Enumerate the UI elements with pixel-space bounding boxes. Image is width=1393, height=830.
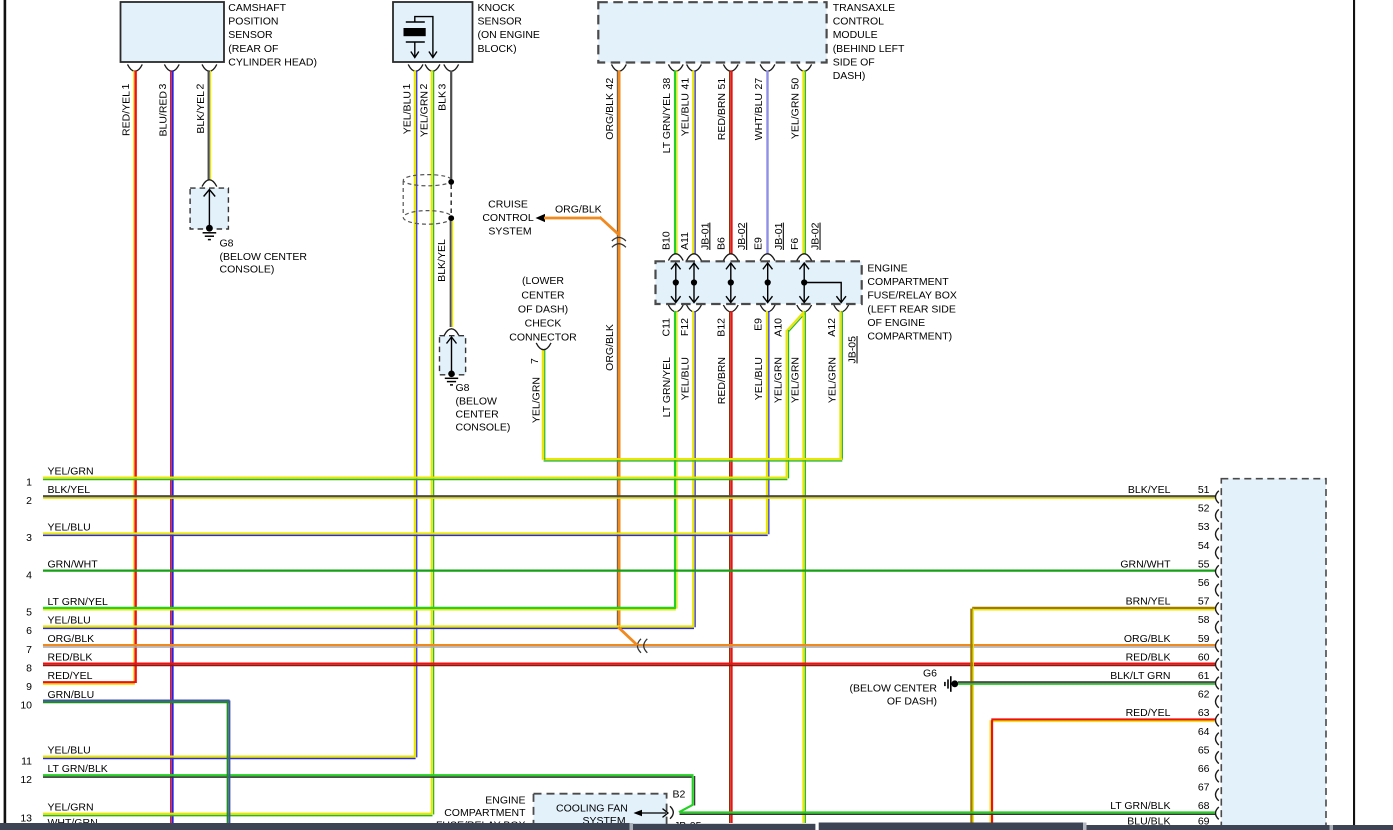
svg-text:JB-02: JB-02 [736,222,748,250]
wire GRN/BLU row10 vertical down [227,701,229,824]
fuse box bottom exit A12 [826,305,859,363]
wire BRN/YEL pin57 [971,608,1215,826]
svg-text:61: 61 [1198,670,1210,682]
svg-text:3: 3 [157,84,169,90]
fuse box top entry E9 [752,222,785,260]
connector B2 [670,789,686,819]
svg-text:57: 57 [1198,596,1210,608]
connector pin 58 [1198,614,1219,633]
svg-text:10: 10 [20,700,32,712]
svg-text:62: 62 [1198,689,1210,701]
row 2 wire BLK/YEL [26,484,1215,507]
svg-text:CRUISE: CRUISE [488,199,528,211]
svg-text:41: 41 [679,78,691,90]
svg-text:6: 6 [26,625,32,637]
fuse box internal fuse arrow 4 [763,263,773,303]
wire YEL/BLU knock pin1 vertical [401,71,416,758]
svg-text:POSITION: POSITION [228,16,278,28]
check connector pin 7 [529,343,551,423]
svg-text:BLK/LT GRN: BLK/LT GRN [1110,670,1170,682]
row 5 wire LT GRN/YEL [26,596,676,619]
svg-text:BLU/RED: BLU/RED [158,91,170,137]
connector pin 67 [1198,782,1219,801]
svg-text:B2: B2 [673,789,686,801]
TCM pin 27 connector [753,64,775,89]
svg-text:CONTROL: CONTROL [833,16,884,28]
svg-text:B10: B10 [661,231,673,250]
svg-text:CONSOLE): CONSOLE) [220,264,275,276]
svg-text:ORG/BLK: ORG/BLK [604,93,616,140]
connector pin 63 [1126,707,1219,726]
row 4 wire GRN/WHT [26,559,1215,582]
wire YEL/GRN knock pin2 vertical [418,71,433,815]
svg-text:RED/BLK: RED/BLK [1126,651,1171,663]
TCM pin 38 connector [661,64,683,89]
svg-text:G8: G8 [456,382,470,394]
camshaft pin 1 connector [120,64,142,89]
svg-text:54: 54 [1198,540,1210,552]
svg-text:ORG/BLK: ORG/BLK [555,204,602,216]
svg-text:COMPARTMENT): COMPARTMENT) [867,331,952,343]
row 7 wire ORG/BLK [26,633,1215,656]
svg-text:BLK: BLK [437,91,449,111]
svg-text:CYLINDER HEAD): CYLINDER HEAD) [228,56,317,68]
svg-text:51: 51 [1198,484,1210,496]
fuse box internal branch to A12 [804,283,846,303]
row 8 wire RED/BLK [26,652,1215,675]
svg-text:64: 64 [1198,726,1210,738]
svg-text:JB-02: JB-02 [810,222,822,250]
svg-text:A12: A12 [826,318,838,337]
fuse box top entry B10 [661,231,684,260]
fuse box bottom exit F12 [679,305,702,336]
connector pin 51 [1128,484,1219,503]
svg-text:WHT/BLU: WHT/BLU [753,93,765,140]
svg-text:(BELOW CENTER: (BELOW CENTER [849,683,937,695]
svg-text:38: 38 [661,78,673,90]
svg-text:RED/BRN: RED/BRN [716,357,728,404]
diagram left border [4,0,7,823]
svg-text:65: 65 [1198,744,1210,756]
svg-text:BLK/YEL: BLK/YEL [436,239,448,282]
svg-text:YEL/BLU: YEL/BLU [753,357,765,400]
ground G6 below center of dash [945,676,958,692]
wire ORG/BLK TCM pin42 vertical [604,71,619,629]
TCM pin 50 connector [790,64,812,89]
svg-text:COMPARTMENT: COMPARTMENT [867,276,949,288]
svg-text:(LOWER: (LOWER [522,275,564,287]
svg-text:SYSTEM: SYSTEM [488,226,531,238]
svg-text:12: 12 [20,774,32,786]
transaxle control module box [598,2,826,62]
shielded cable symbol [403,175,452,225]
engine compartment fuse/relay box [656,261,862,304]
svg-text:4: 4 [26,569,32,581]
svg-text:(REAR OF: (REAR OF [228,43,278,55]
svg-text:CONSOLE): CONSOLE) [456,422,511,434]
ground G8 right label [456,382,511,434]
svg-text:E9: E9 [753,318,765,331]
wire YEL/GRN TCM pin50 vertical [790,71,806,255]
svg-text:YEL/GRN: YEL/GRN [827,357,839,403]
svg-text:RED/BRN: RED/BRN [716,93,728,140]
svg-text:G6: G6 [923,668,937,680]
svg-text:OF DASH): OF DASH) [518,303,568,315]
wire YEL/GRN fuse A10 down [790,311,806,823]
svg-text:1: 1 [120,84,132,90]
svg-text:52: 52 [1198,503,1210,515]
svg-text:BLK/YEL: BLK/YEL [1128,484,1171,496]
connector pin 65 [1198,744,1219,763]
row 9 wire RED/YEL [26,670,135,693]
svg-text:A10: A10 [773,318,785,337]
svg-text:ORG/BLK: ORG/BLK [1124,633,1171,645]
ground G6 label [849,668,937,708]
wire BLK knock pin3 vertical [437,71,452,182]
engine compartment fuse/relay box label (bottom) [436,794,526,830]
bottom window bar [0,823,1393,830]
wire BLK/YEL shield drain to ground [436,221,453,327]
fuse box bottom exit E9 [753,305,776,331]
svg-text:COOLING FAN: COOLING FAN [556,803,628,815]
svg-text:ENGINE: ENGINE [867,263,907,275]
svg-text:42: 42 [604,78,616,90]
camshaft position sensor label [228,2,317,68]
svg-text:LT GRN/BLK: LT GRN/BLK [48,763,108,775]
svg-text:GRN/WHT: GRN/WHT [48,559,99,571]
camshaft position sensor box [121,2,225,62]
transaxle control module label [833,2,905,82]
svg-text:27: 27 [753,78,765,90]
svg-text:3: 3 [437,84,449,90]
connector pin 66 [1198,763,1219,782]
svg-text:KNOCK: KNOCK [478,2,515,14]
ground G8 below center console (left) [190,180,228,240]
svg-text:RED/BLK: RED/BLK [48,652,93,664]
svg-text:YEL/BLU: YEL/BLU [48,614,91,626]
svg-text:CONNECTOR: CONNECTOR [509,331,577,343]
connector pin 53 [1198,521,1219,540]
svg-text:BRN/YEL: BRN/YEL [1126,596,1171,608]
svg-text:CAMSHAFT: CAMSHAFT [228,2,286,14]
wire YEL/GRN fuse A12 to check connector [543,311,843,461]
svg-text:55: 55 [1198,558,1210,570]
svg-text:SENSOR: SENSOR [228,29,273,41]
wire WHT/BLU TCM pin27 vertical [753,71,768,255]
svg-text:YEL/GRN: YEL/GRN [530,377,542,423]
svg-text:CONTROL: CONTROL [482,212,533,224]
connector pin 61 [1110,670,1219,689]
camshaft pin 2 connector [195,64,217,89]
svg-text:YEL/GRN: YEL/GRN [48,466,94,478]
svg-text:(ON ENGINE: (ON ENGINE [478,29,540,41]
svg-text:SENSOR: SENSOR [478,16,523,28]
svg-text:GRN/BLU: GRN/BLU [48,689,95,701]
svg-text:CHECK: CHECK [525,317,562,329]
svg-text:SIDE OF: SIDE OF [833,56,875,68]
svg-text:63: 63 [1198,707,1210,719]
connector pin 54 [1198,540,1219,559]
fuse box bottom exit A10 [773,305,812,337]
svg-text:GRN/WHT: GRN/WHT [1120,558,1171,570]
wire RED/YEL pin63 [990,719,1215,826]
svg-text:JB-05: JB-05 [847,336,859,364]
engine compartment fuse/relay box label [867,263,956,343]
svg-text:3: 3 [26,532,32,544]
svg-text:YEL/GRN: YEL/GRN [418,91,430,137]
check connector label [509,275,577,343]
diagram right border [1353,0,1355,826]
wire LT GRN/YEL TCM pin38 vertical [661,71,677,255]
connector pin 52 [1198,503,1219,522]
connector pin 60 [1126,651,1219,670]
wire ORG/BLK diagonal into row7 [618,627,637,645]
knock sensor internal piezo symbol [404,17,437,58]
svg-text:1: 1 [26,476,32,488]
svg-text:2: 2 [26,495,32,507]
cooling fan arrow [634,809,669,818]
knock pin 2 connector [418,64,440,89]
svg-text:58: 58 [1198,614,1210,626]
svg-text:67: 67 [1198,782,1210,794]
svg-text:(BEHIND LEFT: (BEHIND LEFT [833,43,905,55]
svg-text:BLK/YEL: BLK/YEL [195,91,207,134]
connector pin 59 [1124,633,1219,652]
svg-text:2: 2 [195,84,207,90]
wire break arcs on row7 [637,639,647,653]
svg-text:MODULE: MODULE [833,29,878,41]
svg-text:G8: G8 [220,238,234,250]
svg-text:RED/YEL: RED/YEL [121,91,133,136]
right connector box (dashed) [1221,479,1326,830]
row 12 wire LT GRN/BLK [20,763,693,786]
svg-text:5: 5 [26,607,32,619]
ground G8 left label [220,238,308,276]
wire BLK/YEL camshaft pin2 vertical [195,71,210,180]
svg-text:LT GRN/YEL: LT GRN/YEL [661,357,673,417]
svg-text:YEL/GRN: YEL/GRN [790,357,802,403]
camshaft pin 3 connector [157,64,179,89]
row 6 wire YEL/BLU [26,614,694,637]
svg-text:DASH): DASH) [833,70,866,82]
svg-text:RED/YEL: RED/YEL [1126,707,1171,719]
wire YEL/BLU fuse E9 to row3 [753,311,769,534]
wire YEL/BLU TCM pin41 vertical [679,71,695,255]
svg-text:A11: A11 [679,232,691,250]
row 3 wire YEL/BLU [26,521,768,544]
wire YEL/BLU fuse F12 to row6 [679,311,695,627]
wire RED/BRN fuse B12 down [716,311,731,823]
svg-text:59: 59 [1198,633,1210,645]
svg-text:YEL/BLU: YEL/BLU [679,93,691,136]
wire YEL/GRN fuse A10 branch to row1 [773,312,806,478]
wire break arcs below cruise junction [612,237,626,247]
connector pin 68 [1110,800,1219,819]
svg-text:RED/YEL: RED/YEL [48,670,93,682]
knock sensor label [478,2,540,55]
svg-text:ORG/BLK: ORG/BLK [48,633,95,645]
svg-text:(BELOW CENTER: (BELOW CENTER [220,251,308,263]
svg-text:53: 53 [1198,521,1210,533]
row 11 wire YEL/BLU [21,745,416,768]
cooling fan system label [556,803,628,828]
svg-text:9: 9 [26,681,32,693]
ground G8 below center console (right) [440,329,466,385]
svg-text:F12: F12 [679,318,691,336]
connector pin 62 [1198,689,1219,708]
connector pin 56 [1198,577,1219,596]
svg-text:60: 60 [1198,651,1210,663]
svg-text:YEL/GRN: YEL/GRN [773,357,785,403]
svg-text:JB-01: JB-01 [699,222,711,250]
svg-text:YEL/BLU: YEL/BLU [679,357,691,400]
svg-text:ENGINE: ENGINE [485,794,525,806]
svg-text:LT GRN/YEL: LT GRN/YEL [661,93,673,153]
fuse box internal fuse arrow 3 [726,263,736,303]
svg-text:50: 50 [790,78,802,90]
svg-text:F6: F6 [789,238,801,250]
connector pin 64 [1198,726,1219,745]
svg-text:B12: B12 [716,318,728,337]
svg-text:YEL/GRN: YEL/GRN [48,802,94,814]
row 13 wire YEL/GRN [20,802,432,825]
cruise control system label [482,199,533,238]
svg-text:OF DASH): OF DASH) [887,696,937,708]
svg-text:1: 1 [401,84,413,90]
wire BLU/RED camshaft pin3 vertical [158,71,173,824]
svg-text:CENTER: CENTER [521,290,565,302]
fuse box internal fuse arrow 5 [799,263,809,303]
svg-text:(BELOW: (BELOW [456,396,498,408]
svg-text:13: 13 [20,813,32,825]
shield drain junction dots [448,179,454,221]
wire LT GRN/BLK B2 to pin68 [680,811,1216,813]
svg-text:66: 66 [1198,763,1210,775]
wire RED/BRN TCM pin51 vertical [716,71,731,255]
svg-text:ORG/BLK: ORG/BLK [604,324,616,371]
svg-text:YEL/GRN: YEL/GRN [790,93,802,139]
row 1 wire YEL/GRN [26,466,787,489]
fuse box internal fuse arrow 1 [671,263,681,303]
svg-text:51: 51 [716,78,728,90]
fuse box bottom exit B12 [716,305,739,337]
knock pin 3 connector [437,64,459,89]
knock pin 1 connector [401,64,423,89]
knock sensor box [393,2,473,62]
fuse box top entry B6 [716,222,749,260]
svg-text:8: 8 [26,662,32,674]
cruise control arrow [536,214,546,222]
TCM pin 42 connector [604,64,626,89]
wire LT GRN/YEL fuse C11 to row5 [661,311,677,609]
svg-text:YEL/BLU: YEL/BLU [48,521,91,533]
svg-text:7: 7 [529,358,541,364]
svg-text:COMPARTMENT: COMPARTMENT [444,807,526,819]
cooling fan system box [534,794,667,830]
svg-text:LT GRN/YEL: LT GRN/YEL [48,596,108,608]
row 10 wire GRN/BLU [20,689,229,712]
svg-text:TRANSAXLE: TRANSAXLE [833,2,895,14]
svg-text:E9: E9 [752,237,764,250]
wire LT GRN/BLK row12 drop to B2 [679,776,695,812]
wire BLK/LT GRN pin61 [958,681,1215,683]
svg-text:OF ENGINE: OF ENGINE [867,317,925,329]
fuse box bottom exit C11 [661,305,684,336]
fuse box internal fuse arrow 2 [689,263,699,303]
svg-text:BLOCK): BLOCK) [478,43,517,55]
fuse box top entry A11 [679,222,712,260]
svg-text:BLK/YEL: BLK/YEL [48,484,91,496]
connector pin 69 [1127,815,1209,827]
connector pin 57 [1126,596,1219,615]
svg-text:CENTER: CENTER [456,409,500,421]
svg-text:JB-01: JB-01 [773,222,785,250]
TCM pin 41 connector [679,64,701,89]
connector pin 55 [1120,558,1218,577]
TCM pin 51 connector [716,64,738,89]
svg-text:YEL/BLU: YEL/BLU [48,745,91,757]
svg-text:C11: C11 [661,318,673,337]
svg-text:FUSE/RELAY BOX: FUSE/RELAY BOX [867,290,956,302]
svg-text:(LEFT REAR SIDE: (LEFT REAR SIDE [867,303,956,315]
svg-text:7: 7 [26,644,32,656]
svg-text:B6: B6 [716,237,728,250]
fuse box top entry F6 [789,222,822,260]
svg-text:2: 2 [418,84,430,90]
wire RED/YEL camshaft pin1 vertical [121,71,136,684]
wire ORG/BLK cruise branch [544,204,620,236]
svg-text:YEL/BLU: YEL/BLU [401,91,413,134]
svg-text:68: 68 [1198,800,1210,812]
svg-text:56: 56 [1198,577,1210,589]
svg-text:LT GRN/BLK: LT GRN/BLK [1110,800,1170,812]
svg-text:11: 11 [21,755,32,767]
